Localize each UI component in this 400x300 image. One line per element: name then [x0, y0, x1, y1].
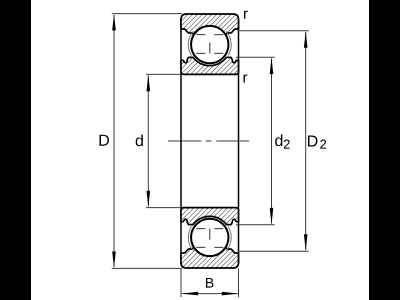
top section group	[181, 14, 239, 74]
label d2 (subscript 2)	[284, 140, 290, 149]
d dimension line	[147, 76, 149, 207]
D2 arrow down	[304, 234, 308, 251]
d2 arrow down	[270, 208, 274, 225]
D dimension extension line bottom	[112, 267, 182, 269]
d arrow up	[147, 75, 151, 92]
d dimension extension line top	[146, 73, 181, 75]
D dimension line	[113, 15, 115, 267]
cage marks bottom ball	[196, 229, 223, 248]
race groove thin arcs (top)	[188, 31, 193, 55]
label d	[136, 135, 143, 147]
cage marks top ball	[196, 35, 223, 54]
outer ring top	[181, 14, 239, 42]
right black bar	[369, 0, 400, 300]
d2 dimension line	[271, 59, 273, 224]
label r (outer ring radius)	[244, 11, 248, 19]
inner ring top	[181, 57, 239, 74]
label d2 (d)	[275, 134, 282, 146]
d dimension extension line bottom	[146, 207, 181, 209]
d2 arrow up	[270, 57, 274, 74]
B extension line left	[180, 269, 182, 298]
ball top	[191, 26, 228, 63]
label B	[206, 278, 213, 288]
label r (inner ring radius)	[243, 74, 247, 82]
bottom section group (mirror of top about y=141)	[181, 208, 239, 268]
D2 dimension extension line bottom	[238, 250, 309, 252]
d2 dimension extension line bottom	[236, 224, 275, 226]
D arrow down	[112, 252, 116, 269]
D2 arrow up	[304, 31, 308, 48]
D arrow up	[112, 14, 116, 31]
B dimension line	[183, 293, 238, 295]
d2 dimension extension line top	[236, 56, 275, 58]
ball bottom	[191, 219, 228, 256]
inner ring bottom	[181, 208, 239, 225]
B arrow left	[182, 292, 199, 296]
label D2 (subscript 2)	[320, 140, 326, 149]
centerline (bearing axis)	[168, 140, 249, 142]
B extension line right	[238, 269, 240, 298]
bearing right face line	[238, 19, 240, 264]
D2 dimension extension line top	[238, 30, 309, 32]
race groove thin arcs (bottom)	[188, 227, 193, 251]
D2 dimension line	[305, 32, 307, 250]
label D	[100, 135, 109, 146]
d arrow down	[147, 191, 151, 208]
label D2 (D)	[308, 135, 317, 146]
bearing left face line	[180, 19, 182, 264]
B arrow right	[222, 292, 239, 296]
D dimension extension line top	[112, 13, 182, 15]
outer ring bottom	[181, 240, 239, 268]
left black bar	[0, 0, 31, 300]
